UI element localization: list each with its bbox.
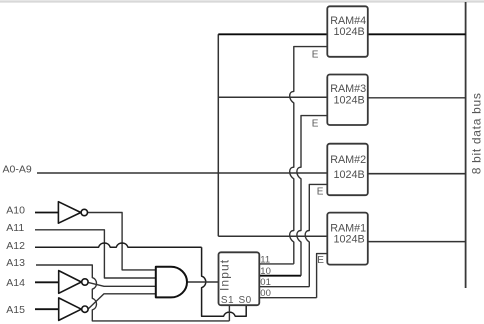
wire: A0-A9 horizontal to RAM#2 (hops drawn on verticals) xyxy=(37,172,328,174)
wire: A14 inverter output to AND input 3 xyxy=(88,282,156,286)
svg-text:A10: A10 xyxy=(6,204,25,216)
svg-text:00: 00 xyxy=(260,288,271,299)
RAM#2 box xyxy=(327,144,368,196)
svg-text:RAM#2: RAM#2 xyxy=(330,154,366,166)
inverter U2 (A14) xyxy=(59,271,88,294)
wire: A11 line to AND input 2 xyxy=(35,230,156,278)
wire: RAM#2 data line to bus xyxy=(368,173,466,175)
inverter U1 (A10) xyxy=(58,202,87,224)
RAM#4 box xyxy=(327,6,368,57)
svg-text:E: E xyxy=(317,255,324,266)
svg-text:S1: S1 xyxy=(221,295,234,306)
svg-text:11: 11 xyxy=(260,254,270,265)
net 01: decoder output to RAM#2 E xyxy=(259,286,309,288)
svg-text:8 bit data bus: 8 bit data bus xyxy=(470,92,484,174)
net 00: decoder output to RAM#1 E xyxy=(259,297,316,299)
svg-text:A15: A15 xyxy=(6,304,25,316)
svg-text:10: 10 xyxy=(260,266,271,277)
net 10: decoder output to RAM#3 E (black) xyxy=(259,275,301,277)
8 bit data bus vertical line xyxy=(465,2,467,288)
svg-text:E: E xyxy=(312,50,319,61)
svg-text:E: E xyxy=(312,118,319,129)
svg-text:A14: A14 xyxy=(6,277,25,289)
wire: A14 input stub (black) xyxy=(35,281,59,283)
wire: A13 line down to S1 (hops over A14/A15 outputs) xyxy=(36,265,229,321)
RAM#3 box xyxy=(327,75,368,126)
svg-text:01: 01 xyxy=(260,277,271,288)
svg-text:A11: A11 xyxy=(6,222,24,234)
wire: RAM#1 data line to bus xyxy=(368,241,466,243)
svg-text:1024B: 1024B xyxy=(334,26,365,38)
wire: A10 input stub (black) xyxy=(35,212,58,214)
wire: RAM#3 address line xyxy=(218,96,328,98)
RAM#1 box xyxy=(327,213,368,265)
svg-text:Input: Input xyxy=(217,259,231,291)
inverter U3 (A15) xyxy=(59,298,88,321)
wire: A12 line to decoder S0 (hops over two verticals) xyxy=(35,243,202,247)
decoder U5 box xyxy=(219,252,260,305)
wire: RAM#3 data line to bus xyxy=(368,97,466,99)
wire: AND gate output to decoder enable xyxy=(187,281,219,283)
net 11: decoder output to RAM#4 E xyxy=(259,263,294,265)
wire: address bus vertical (A0-A9 distribution) xyxy=(217,34,219,236)
wire: A15 inverter output to AND input 4 xyxy=(88,294,156,309)
wire: A12 vertical down to S0 row (hop over AND output) xyxy=(202,247,247,316)
AND gate U4 xyxy=(156,267,187,298)
wire: RAM#4 data line to bus (black) xyxy=(368,33,466,35)
wire: RAM#1 address line xyxy=(218,235,327,237)
svg-text:E: E xyxy=(317,187,324,198)
svg-text:A12: A12 xyxy=(6,240,25,252)
wire: S1 vertical from decoder xyxy=(228,305,230,321)
top border line xyxy=(0,0,484,2)
svg-text:S0: S0 xyxy=(239,295,252,306)
wire: A15 input stub (black) xyxy=(35,308,59,310)
svg-text:1024B: 1024B xyxy=(334,94,365,106)
wire: A10 inverter output to AND input 1 xyxy=(87,213,155,270)
wire: RAM#4 address line (black) xyxy=(218,33,327,35)
svg-text:1024B: 1024B xyxy=(334,169,365,181)
svg-text:1024B: 1024B xyxy=(334,234,365,246)
svg-text:RAM#4: RAM#4 xyxy=(330,15,366,27)
svg-text:A0-A9: A0-A9 xyxy=(3,164,32,176)
svg-text:A13: A13 xyxy=(6,257,25,269)
